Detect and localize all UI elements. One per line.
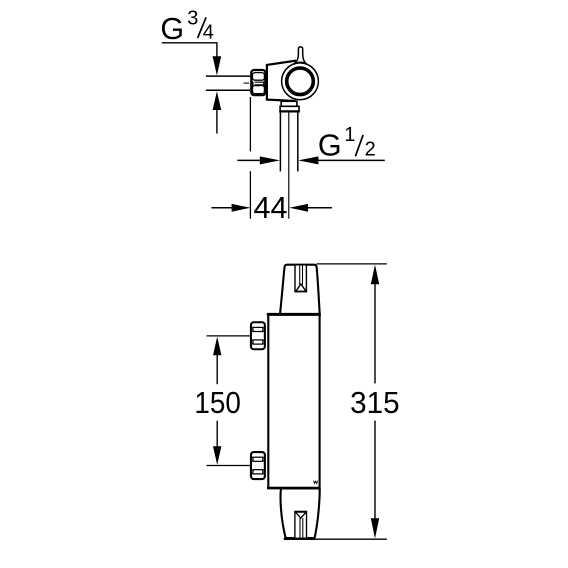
svg-text:2: 2 <box>365 139 376 161</box>
label G 1/2 <box>318 124 376 163</box>
tiny w mark on body <box>314 481 318 484</box>
bottom handle grip inlay <box>295 511 307 538</box>
svg-text:315: 315 <box>350 386 400 420</box>
handle stem/lever <box>294 47 307 64</box>
svg-text:4: 4 <box>203 21 214 43</box>
inlet centerline dash <box>244 82 250 84</box>
bottom handle thick bottom edge <box>284 538 315 540</box>
svg-text:3: 3 <box>187 7 198 29</box>
valve body (top view) <box>267 61 302 101</box>
G1/2 dim left tail <box>237 159 261 161</box>
150 dim line upper seg <box>216 355 218 384</box>
44 dim right tail <box>307 207 332 209</box>
body rectangle <box>268 315 319 489</box>
top extension line (315) <box>317 263 387 265</box>
G1/2 dim right tail <box>317 159 385 161</box>
svg-text:1: 1 <box>344 124 355 146</box>
outlet collar segment 2 <box>280 106 299 111</box>
315 dim arrow up <box>371 265 379 285</box>
handle ring inner <box>287 68 314 95</box>
outlet collar segment 1 <box>281 101 297 106</box>
body thick top edge <box>267 313 321 316</box>
dim arrow down (to pipe top) <box>213 56 222 75</box>
44 dim right arrow <box>289 204 308 212</box>
315 dim arrow down <box>371 518 379 538</box>
150 dim arrow up <box>213 337 221 356</box>
inlet nut lower (front view) <box>251 452 265 479</box>
union nut G3/4 (top view) <box>251 70 265 95</box>
handle ring outer (top view) <box>282 63 319 100</box>
top handle <box>280 265 320 315</box>
315 dim line lower seg <box>374 421 376 519</box>
dim arrow up (to pipe bottom) <box>213 91 222 110</box>
44 ext line left (from nut face) <box>249 97 251 151</box>
44 dim left tail <box>211 207 233 209</box>
44 dim left arrow <box>232 204 251 212</box>
150 dim line lower seg <box>216 421 218 447</box>
150 ext line lower <box>207 465 250 467</box>
outlet pipe right wall <box>297 112 299 172</box>
top handle grip inlay <box>295 265 306 292</box>
outlet pipe centerline / 44 ext right <box>288 112 290 219</box>
svg-text:44: 44 <box>254 191 288 225</box>
150 ext line upper <box>207 335 250 337</box>
leader underline G3/4 <box>162 43 217 57</box>
outlet pipe left wall <box>279 112 281 172</box>
G1/2 dim left arrow <box>260 156 280 164</box>
svg-text:G: G <box>160 12 184 46</box>
inlet pipe top line <box>206 75 250 77</box>
svg-text:150: 150 <box>194 386 241 420</box>
svg-text:G: G <box>318 129 342 163</box>
dim arrow up tail <box>216 110 218 134</box>
bottom handle <box>281 489 320 539</box>
inlet nut upper (front view) <box>251 322 265 349</box>
inlet pipe bottom line <box>206 89 250 91</box>
315 dim line upper seg <box>374 284 376 383</box>
label G 3/4 <box>160 7 214 46</box>
collar thick bottom edge <box>279 110 300 112</box>
150 dim arrow down <box>213 446 221 465</box>
G1/2 dim right arrow <box>298 156 318 164</box>
bottom extension line (315) <box>315 538 387 540</box>
body thick bottom edge <box>267 487 320 490</box>
